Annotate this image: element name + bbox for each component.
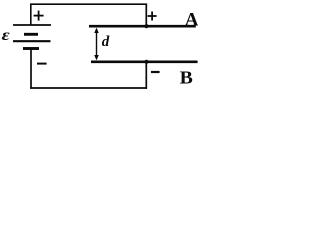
capacitor plate A <box>89 25 196 28</box>
svg-text:d: d <box>102 34 110 50</box>
node junction on plate B <box>144 60 148 64</box>
label - at battery <box>37 63 47 65</box>
dimension arrowhead down <box>94 55 99 60</box>
battery plate short bottom (-) <box>23 47 39 50</box>
wire battery top lead <box>30 4 32 25</box>
dimension arrow line for gap d <box>96 30 98 59</box>
dimension arrowhead up <box>94 28 99 33</box>
wire battery bottom lead <box>30 49 32 89</box>
wire bottom horizontal <box>30 87 147 89</box>
battery plate short upper <box>24 33 38 36</box>
battery plate long lower <box>13 40 51 42</box>
wire right upper vertical <box>145 4 147 27</box>
battery EMF source: plate long top (+) <box>13 24 51 26</box>
label + at plate A <box>148 12 157 21</box>
svg-text:B: B <box>180 68 194 88</box>
capacitor plate B <box>91 60 198 63</box>
node junction on plate A <box>144 24 148 28</box>
svg-text:ε: ε <box>2 26 11 44</box>
label - at plate B <box>151 71 160 73</box>
svg-text:A: A <box>185 10 198 31</box>
label + at battery <box>34 11 44 21</box>
wire right lower vertical <box>145 62 147 89</box>
wire top horizontal <box>30 3 147 5</box>
